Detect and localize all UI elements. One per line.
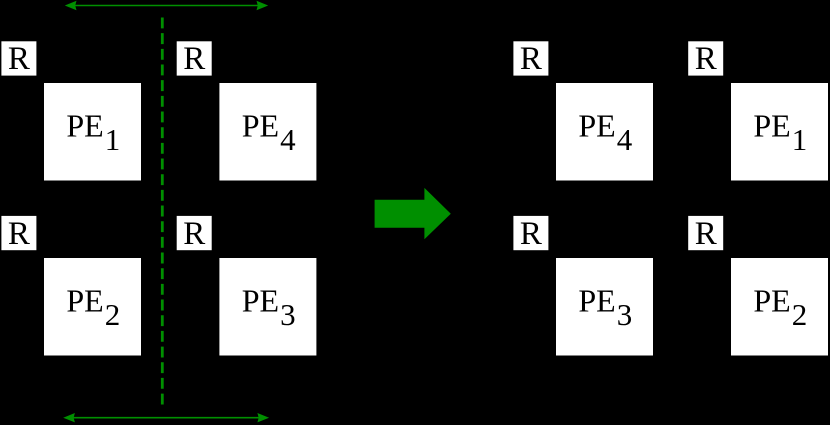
svg-text:R: R — [183, 41, 205, 77]
svg-text:1: 1 — [105, 122, 121, 157]
PE box PE2 left group — [44, 258, 141, 356]
bottom double arrow — [63, 413, 269, 422]
svg-text:PE: PE — [66, 108, 103, 144]
router R box right-bottom-1 — [513, 216, 548, 252]
router R box right-top-2 — [688, 41, 723, 77]
svg-text:PE: PE — [242, 108, 279, 144]
svg-text:4: 4 — [280, 122, 296, 157]
svg-text:1: 1 — [792, 122, 808, 157]
router R box left-bottom-1 — [1, 216, 36, 252]
top double arrow — [65, 1, 268, 10]
svg-text:3: 3 — [617, 297, 633, 332]
svg-text:PE: PE — [578, 283, 615, 319]
svg-text:R: R — [520, 41, 542, 77]
svg-text:PE: PE — [242, 283, 279, 319]
svg-text:R: R — [8, 41, 30, 77]
router R box right-top-1 — [513, 41, 548, 77]
PE box PE3 left group — [219, 258, 316, 356]
svg-text:PE: PE — [753, 108, 790, 144]
svg-text:2: 2 — [105, 297, 121, 332]
router R box left-top-2 — [177, 41, 212, 77]
svg-text:2: 2 — [792, 297, 808, 332]
svg-text:R: R — [8, 216, 30, 252]
PE box PE4 left group — [219, 83, 316, 181]
PE box PE1 left group — [44, 83, 141, 181]
router R box right-bottom-2 — [688, 216, 723, 252]
PE box PE3 right group — [556, 258, 653, 356]
svg-text:4: 4 — [617, 122, 633, 157]
svg-text:PE: PE — [753, 283, 790, 319]
PE box PE2 right group — [731, 258, 828, 356]
svg-text:R: R — [695, 41, 717, 77]
svg-text:R: R — [695, 216, 717, 252]
svg-text:3: 3 — [280, 297, 296, 332]
svg-text:PE: PE — [578, 108, 615, 144]
router R box left-bottom-2 — [177, 216, 212, 252]
svg-text:R: R — [520, 216, 542, 252]
PE box PE1 right group — [731, 83, 828, 181]
big transform arrow — [375, 188, 451, 239]
PE box PE4 right group — [556, 83, 653, 181]
svg-text:R: R — [183, 216, 205, 252]
router R box left-top-1 — [1, 41, 36, 77]
dashed fold line — [161, 18, 164, 405]
svg-text:PE: PE — [66, 283, 103, 319]
